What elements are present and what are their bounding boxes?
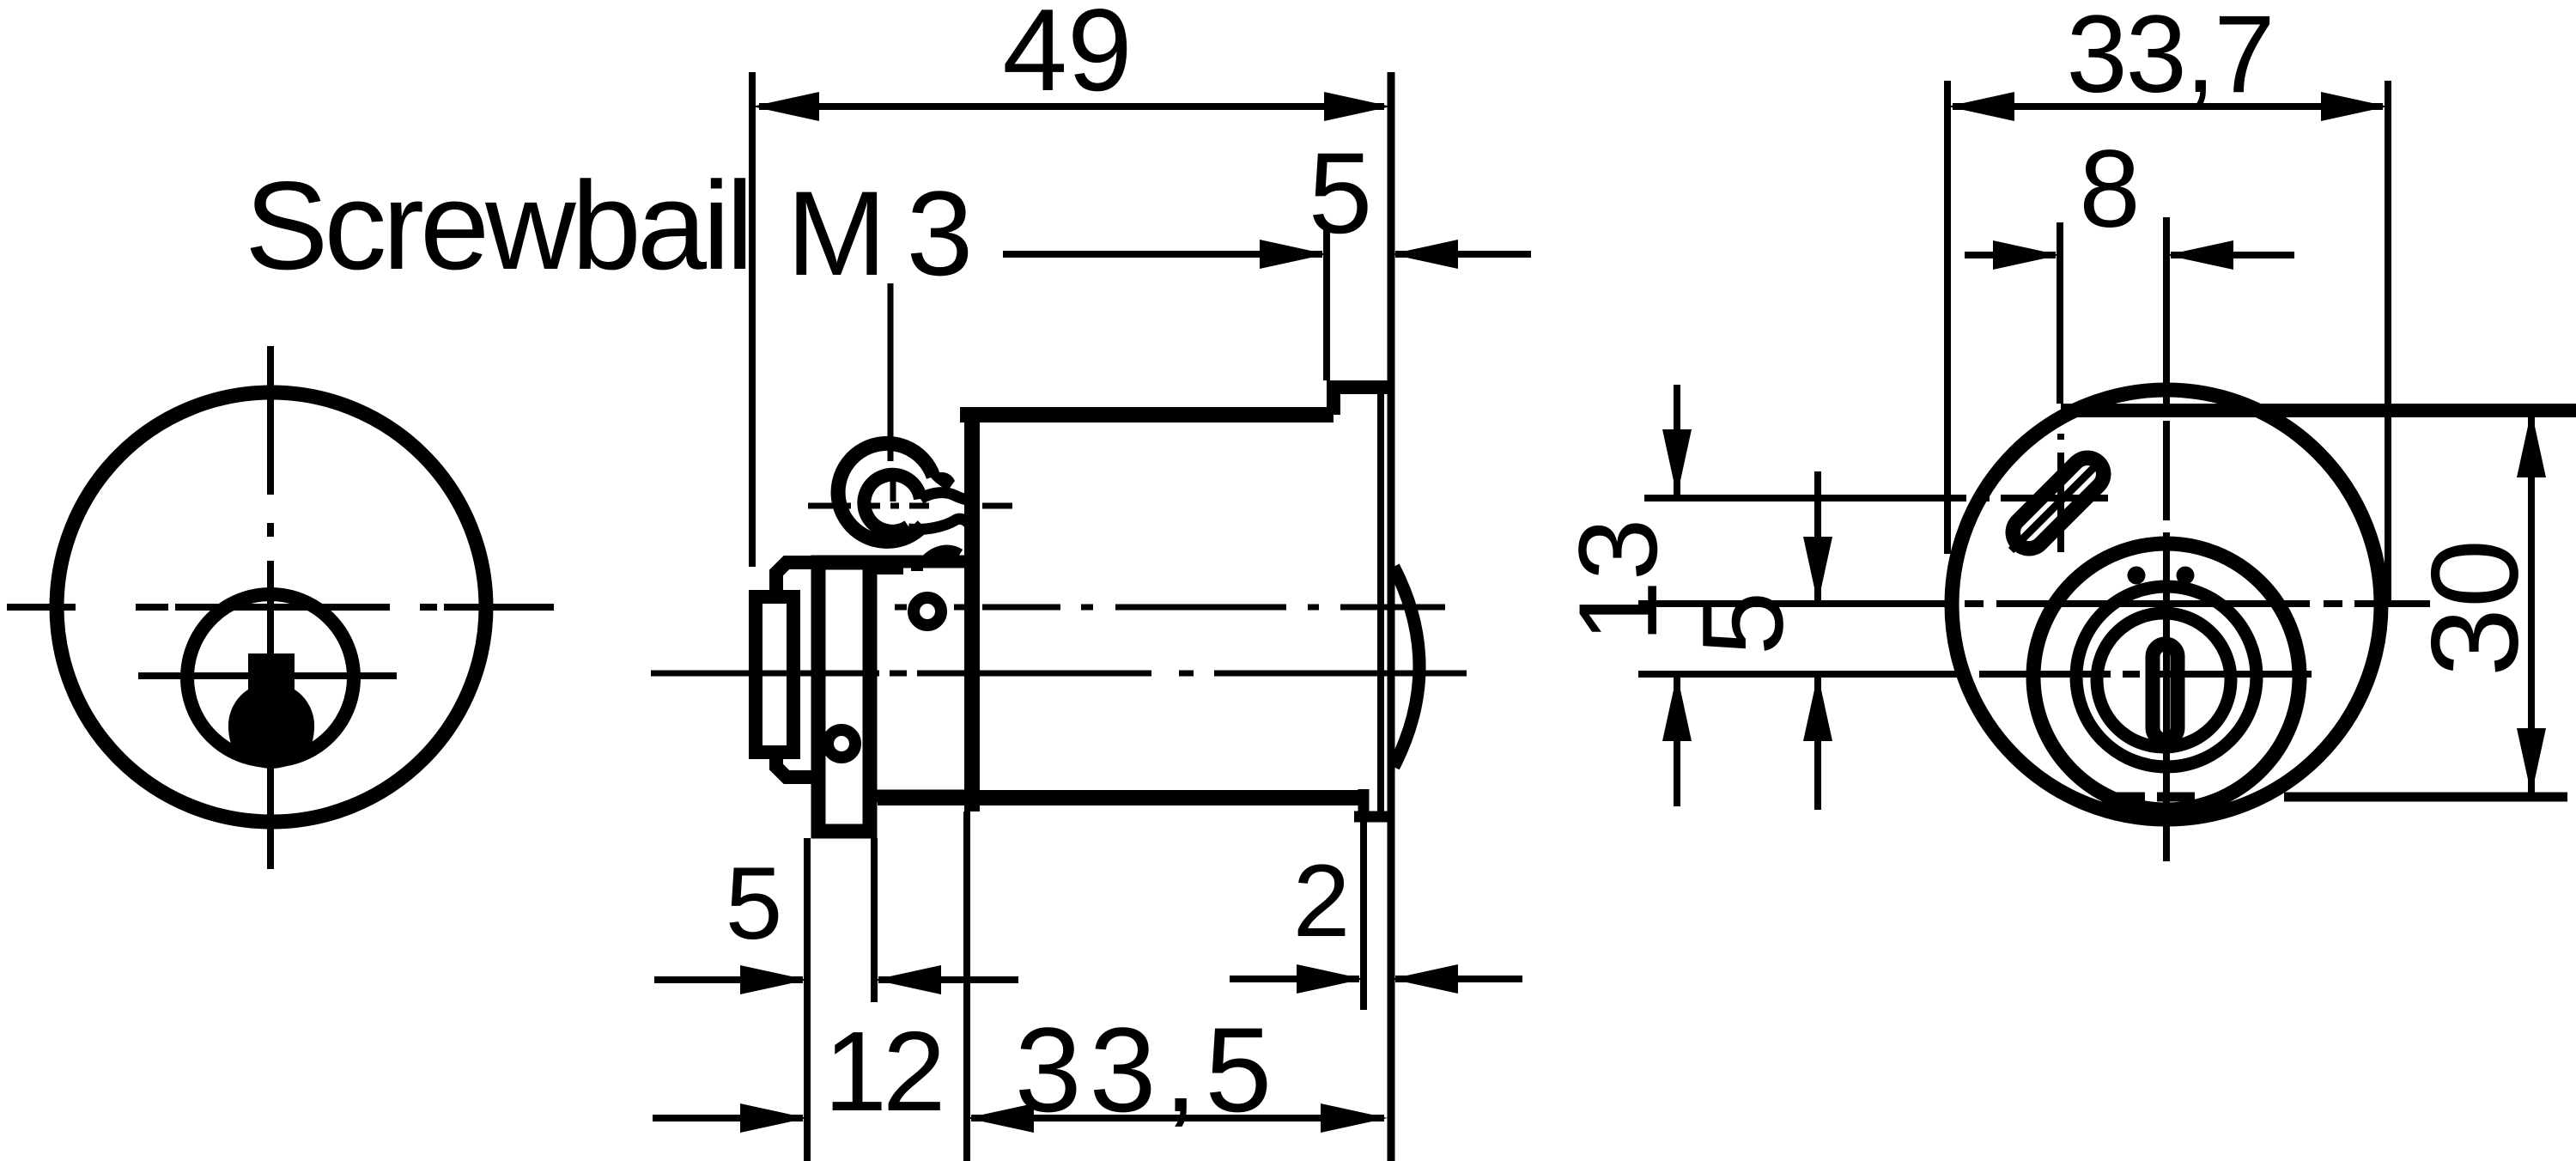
body front face: [964, 409, 980, 811]
screwbail outer ring: [838, 443, 933, 541]
arrow 8 right: [2166, 240, 2233, 270]
arrow 5r bottom: [1803, 674, 1832, 741]
flange top ledge: [1327, 380, 1391, 394]
key bit slot: [2153, 644, 2178, 740]
dim 5 top lines: [1003, 251, 1531, 258]
dim line 49: [759, 103, 1384, 110]
mounting plate: [818, 562, 870, 831]
arrow 5r top: [1803, 537, 1832, 604]
pin dot left: [2128, 567, 2146, 585]
screwbail hook S-wire: [920, 493, 972, 501]
dim line 33,7: [1953, 103, 2383, 110]
plug axis center line: [651, 671, 1467, 677]
cylinder outer circle: [57, 392, 486, 822]
arrow 13 top: [1662, 429, 1692, 496]
arrow 5bot left-pointing: [874, 965, 941, 994]
arrow 49 right: [1324, 92, 1391, 121]
dim 2 lines: [1230, 976, 1522, 982]
adapter block: [871, 562, 972, 796]
body step vertical: [1327, 380, 1340, 415]
screwbail inner ring: [864, 475, 920, 532]
extension x940: [804, 838, 811, 1161]
extension 33,7 right: [2385, 81, 2391, 601]
screwbail hook lower arc: [926, 550, 960, 560]
vertical center line: [2163, 217, 2170, 861]
plug outer circle: [2033, 544, 2300, 810]
body bottom edge: [878, 790, 1364, 805]
screwbail hook second band: [908, 519, 970, 529]
svg-text:M 3: M 3: [787, 166, 969, 301]
svg-text:8: 8: [2079, 128, 2140, 251]
keyhole bulb: [228, 683, 314, 769]
dim bottom 5 lines: [654, 976, 1018, 983]
svg-text:33,5: 33,5: [1015, 1002, 1279, 1137]
extension 5-top: [1323, 230, 1330, 380]
keyway horizontal extension (13 top): [1644, 495, 2108, 501]
top flat chord: [2061, 404, 2576, 417]
plug inner circle: [2097, 613, 2231, 747]
front pin: [756, 597, 793, 752]
rear bulge arc: [1394, 567, 1419, 767]
svg-text:49: 49: [1002, 0, 1132, 115]
dim 13 lines: [1674, 385, 1680, 806]
plug middle circle: [2076, 587, 2257, 767]
svg-text:12: 12: [824, 1008, 942, 1134]
arrow 13 bottom: [1662, 674, 1692, 741]
svg-text:Screwbail: Screwbail: [245, 155, 750, 295]
extension x1018: [871, 838, 878, 1002]
flange rear face inner line: [1377, 391, 1384, 814]
arrow 30 top: [2517, 410, 2546, 477]
dim line 30: [2528, 410, 2535, 795]
arrow 2 right: [1391, 964, 1458, 994]
keyway axis line: [2011, 463, 2099, 550]
svg-text:5: 5: [726, 846, 783, 961]
extension line 49-left / pin face: [749, 72, 756, 567]
dim 33,5 line: [971, 1115, 1384, 1121]
arrow 5top right: [1391, 240, 1458, 269]
arrow 30 bottom: [2517, 728, 2546, 795]
keyway vertical dash-dot: [2057, 434, 2064, 552]
arrow 33,7 right: [2321, 92, 2388, 121]
plug circle: [187, 594, 354, 761]
arrow 33,7 left: [1947, 92, 2014, 121]
collar (chamfered): [776, 562, 818, 777]
arrow 5top left: [1260, 240, 1327, 269]
extension x1584: [1360, 822, 1367, 1010]
arrow 12 left: [740, 1103, 807, 1133]
extension x1130: [963, 811, 970, 1161]
screwbail wire end right: [911, 562, 923, 571]
horizontal plug line + 5/13 extension: [1638, 671, 2312, 678]
bail axis center line: [808, 503, 1012, 509]
keyhole (filled): [228, 653, 314, 764]
arrow 33,5 left: [967, 1103, 1034, 1133]
arrow 8 left: [1993, 240, 2060, 270]
keyway slot stadium: [2029, 474, 2087, 532]
cylinder axis center line: [895, 605, 1445, 611]
screwbail wire end left: [874, 564, 903, 574]
extension 8 left: [2057, 222, 2063, 404]
arrow 49 left: [752, 92, 819, 121]
dim 5 right lines: [1814, 471, 1821, 810]
svg-text:2: 2: [1293, 843, 1351, 958]
svg-text:33,7: 33,7: [2066, 0, 2273, 116]
dim 8 lines: [1965, 252, 2294, 258]
bottom flat chord (hidden + solid): [2108, 793, 2567, 802]
svg-text:5: 5: [1309, 130, 1373, 258]
upper screw hole: [914, 598, 941, 625]
arrow 33,5 right: [1321, 1103, 1388, 1133]
horizontal center line: [7, 604, 554, 611]
svg-text:5: 5: [1680, 592, 1807, 656]
plug horizontal line: [138, 672, 397, 679]
arrow 2 left: [1297, 964, 1364, 994]
pin dot right: [2177, 567, 2195, 585]
vertical center line: [267, 346, 274, 869]
extension line 49-right / flange rear face: [1388, 72, 1395, 1161]
M3 leader line: [890, 283, 893, 501]
cylinder circle: [1952, 390, 2381, 819]
arrow 5bot right-pointing: [740, 965, 807, 994]
body top edge: [960, 407, 1334, 422]
dim 12 tail line: [653, 1115, 803, 1121]
svg-text:30: 30: [2406, 539, 2544, 677]
lower screw hole: [828, 730, 855, 757]
horizontal cylinder axis + 5 extension: [1638, 600, 2430, 607]
flange bottom ledge: [1354, 811, 1394, 823]
body step down: [1358, 789, 1370, 817]
screwbail hook upper beak: [931, 472, 955, 490]
svg-text:13: 13: [1555, 519, 1680, 643]
extension 33,7 left: [1944, 81, 1951, 554]
